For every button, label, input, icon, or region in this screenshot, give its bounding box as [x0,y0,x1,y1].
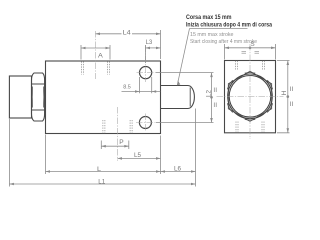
svg-text:L: L [97,166,101,173]
svg-text:L4: L4 [123,29,131,36]
svg-text:H: H [281,90,288,95]
svg-text:A: A [98,53,103,60]
svg-text:S: S [251,41,256,48]
svg-text:L2: L2 [205,90,212,97]
svg-text:L1: L1 [98,178,105,185]
svg-text:Corsa max 15 mm: Corsa max 15 mm [186,14,232,21]
svg-text:L6: L6 [174,165,181,172]
svg-text:P: P [119,139,124,146]
svg-text:15 mm max stroke: 15 mm max stroke [190,32,234,38]
svg-text:Inizia chiusura dopo 4 mm di c: Inizia chiusura dopo 4 mm di corsa [186,21,272,28]
svg-text:L3: L3 [146,39,153,46]
svg-text:L5: L5 [134,152,141,159]
svg-text:Start closing after 4 mm strok: Start closing after 4 mm stroke [190,39,258,45]
svg-text:8.5: 8.5 [123,85,131,91]
